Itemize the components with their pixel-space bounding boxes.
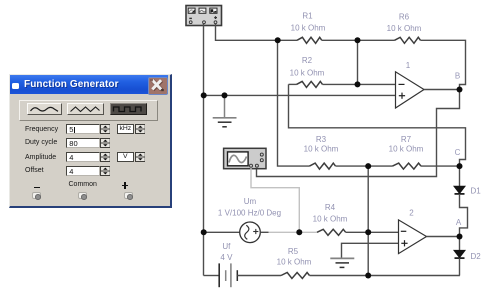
svg-text:10 k Ohm: 10 k Ohm <box>290 69 325 78</box>
wire: R1-R6 junction down to R2 row <box>357 40 359 84</box>
svg-text:R5: R5 <box>288 247 299 256</box>
svg-text:10 k Ohm: 10 k Ohm <box>387 24 422 33</box>
node at Um output <box>296 229 302 235</box>
svg-text:C: C <box>455 148 461 157</box>
svg-text:Um: Um <box>244 197 257 206</box>
wire: R2 left stub <box>289 83 297 85</box>
label Uf 4 V <box>220 242 233 262</box>
wire: Um plus stub (dark) <box>260 231 268 233</box>
svg-text:1: 1 <box>406 61 411 70</box>
wire: battery to R5 <box>237 275 281 277</box>
wire: bottom rail to battery <box>204 275 220 277</box>
battery Uf <box>219 263 237 287</box>
wire: D2 to bottom rail <box>459 258 461 275</box>
svg-text:B: B <box>455 72 460 81</box>
function generator instrument icon XFG1 <box>186 6 222 26</box>
wire: ground row to op-amp 1 non-inverting input <box>204 94 396 96</box>
svg-text:D2: D2 <box>471 252 482 261</box>
wire: op-amp 2 non-inverting input to ground <box>342 243 399 258</box>
label Um 1 V/100 Hz/0 Deg <box>218 197 281 218</box>
label R2 10 k Ohm <box>290 56 325 78</box>
svg-text:10 k Ohm: 10 k Ohm <box>291 24 326 33</box>
wire: R3 to R7 <box>336 165 393 167</box>
ground symbol near op-amp 1 <box>213 95 237 126</box>
wire: op-amp 1 output to node B <box>424 89 460 91</box>
svg-text:2: 2 <box>409 209 414 218</box>
source Um (sine) <box>240 222 261 243</box>
svg-text:A: A <box>456 218 462 227</box>
node at R1-R6 junction <box>355 37 361 43</box>
wire: FG common terminal down left rail <box>203 24 205 276</box>
svg-text:R2: R2 <box>302 56 313 65</box>
svg-text:4 V: 4 V <box>220 253 233 262</box>
svg-text:D1: D1 <box>471 186 482 195</box>
svg-text:R7: R7 <box>401 135 412 144</box>
wire: R4 to op-amp 2 inverting input <box>346 231 399 233</box>
svg-text:R3: R3 <box>316 135 327 144</box>
wire: R7 to node C <box>421 165 460 167</box>
svg-text:Uf: Uf <box>222 242 231 251</box>
ground symbol near op-amp 2 <box>330 258 354 267</box>
label R5 10 k Ohm <box>277 247 312 267</box>
wire: input node down to R3 row <box>278 40 310 166</box>
diode D1 <box>454 186 465 194</box>
node at R4 trunk junction <box>365 229 371 235</box>
node at op-amp 1 inverting input <box>355 81 361 87</box>
resistor R5 <box>281 273 309 279</box>
op-amp U1 <box>396 72 425 108</box>
resistor R3 <box>310 163 336 169</box>
svg-text:10 k Ohm: 10 k Ohm <box>277 258 312 267</box>
svg-text:10 k Ohm: 10 k Ohm <box>304 145 339 154</box>
wire: R2 left down and feedback to node C <box>289 84 466 166</box>
op-amp U2 <box>399 220 427 254</box>
svg-text:R1: R1 <box>302 12 313 21</box>
label R7 10 k Ohm <box>389 135 424 154</box>
Function Generator dialog window <box>9 74 172 208</box>
node at input top <box>275 37 281 43</box>
wire: D1 to node A <box>460 194 468 237</box>
node at left rail Um row <box>201 229 207 235</box>
wire: node C down to D1 <box>459 166 461 186</box>
wire: FG plus terminal to R1 <box>216 24 298 41</box>
node at bottom rail trunk <box>365 273 371 279</box>
node A <box>457 234 463 240</box>
svg-text:10 k Ohm: 10 k Ohm <box>389 145 424 154</box>
wire: R2 to op-amp 1 inverting input <box>323 83 396 85</box>
wire: R1 to R6 <box>322 39 395 41</box>
node at ground 1 <box>222 92 228 98</box>
wire: node B to oscilloscope channel B <box>257 90 460 177</box>
wire: R5 to D2 bottom rail <box>310 275 460 277</box>
label R1 10 k Ohm <box>291 12 326 33</box>
diode D2 <box>454 250 465 258</box>
svg-text:R4: R4 <box>325 203 336 212</box>
node at R3-R7 junction <box>365 163 371 169</box>
wire: left rail to source Um <box>204 231 240 233</box>
resistor R1 <box>297 37 322 43</box>
node B <box>457 87 463 93</box>
oscilloscope icon XSC1 <box>224 148 266 168</box>
node C <box>457 163 463 169</box>
svg-text:10 k Ohm: 10 k Ohm <box>313 215 348 224</box>
wire: op-amp 2 output to node A <box>427 236 460 238</box>
svg-text:1 V/100 Hz/0 Deg: 1 V/100 Hz/0 Deg <box>218 209 281 218</box>
wire: trunk node R3 down to bottom rail <box>367 166 369 275</box>
label R4 10 k Ohm <box>313 203 348 224</box>
label R3 10 k Ohm <box>304 135 339 154</box>
resistor R4 <box>317 229 346 235</box>
wire: oscilloscope channel A probe (light) <box>251 168 299 233</box>
resistor R2 <box>297 81 323 87</box>
node at left rail ground row <box>201 92 207 98</box>
wire: Um to R4 node (light) <box>269 231 318 233</box>
resistor R6 <box>395 37 421 43</box>
wire: node A down to D2 <box>459 237 461 251</box>
svg-text:R6: R6 <box>399 13 410 22</box>
resistor R7 <box>393 163 421 169</box>
wire: R6 right down to node B <box>421 40 466 89</box>
label R6 10 k Ohm <box>387 13 422 33</box>
